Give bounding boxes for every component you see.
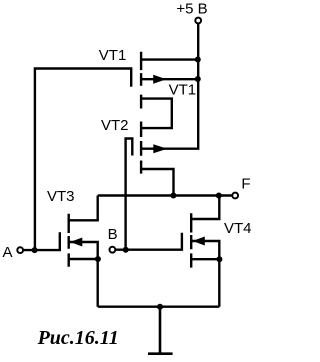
junction dot VT4 source (216, 256, 222, 262)
junction dot rail/VT1 bulk (195, 76, 201, 82)
svg-text:A: A (3, 244, 13, 261)
arrowhead VT3 bulk (points left) (70, 238, 82, 247)
svg-text:Рис.16.11: Рис.16.11 (37, 327, 119, 349)
wire: VT3 source down to ground rail (69, 259, 98, 307)
wire: VT1 drain stub to rail (141, 58, 198, 60)
terminal +5V (195, 18, 201, 24)
wire: input B to VT4 gate, gate bar (116, 233, 182, 251)
wire: VT3 drain up to output line (69, 196, 98, 221)
wire: VT2 source down to output node F (141, 169, 173, 196)
svg-text:VT1: VT1 (169, 81, 197, 98)
wire: VT4 source down to ground rail (191, 259, 219, 307)
junction dot input B branch (123, 247, 129, 253)
wire: VT3 bulk arrow line down to source (69, 242, 98, 259)
transistor VT3 channel dashes (67, 214, 69, 267)
junction dot output line/VT4 drain (216, 193, 222, 199)
wire: VT1 bulk arrow line to rail (141, 78, 198, 80)
wire: input A to VT3 gate, gate bar (24, 232, 60, 251)
wire: VT4 bulk arrow line down to source (191, 241, 219, 259)
wire: input A node up left side to VT1 gate, gate bar (35, 69, 131, 251)
arrowhead VT1 bulk (points right) (153, 75, 166, 84)
transistor VT1 channel dashes (140, 52, 142, 109)
arrowhead VT4 bulk (points left) (193, 237, 205, 246)
junction dot VT3 source (95, 256, 101, 262)
svg-text:VT2: VT2 (101, 117, 129, 134)
wire: bottom ground rail (98, 306, 220, 308)
transistor VT2 channel dashes (140, 122, 142, 174)
wire: VT4 drain up to output line (191, 196, 219, 220)
junction dot ground rail (157, 304, 163, 310)
junction dot VT2 source/output line (170, 193, 176, 199)
junction dot input A branch (32, 247, 38, 253)
svg-text:VT4: VT4 (224, 220, 252, 237)
svg-text:F: F (241, 175, 250, 192)
svg-text:B: B (108, 226, 118, 243)
wire: +5V rail down to VT2 bulk corner (141, 24, 198, 149)
junction dot rail/VT1 drain (195, 57, 201, 63)
svg-text:+5 В: +5 В (176, 0, 207, 17)
arrowhead VT2 bulk (points right) (153, 144, 167, 153)
terminal A (17, 247, 23, 253)
transistor VT4 channel dashes (190, 213, 192, 267)
wire: output line to F terminal (98, 194, 232, 196)
ground (148, 307, 173, 354)
terminal B (110, 247, 116, 253)
wire: B node up to VT2 gate, gate bar (126, 139, 133, 250)
svg-text:VT3: VT3 (47, 188, 75, 205)
svg-text:VT1: VT1 (99, 47, 127, 64)
wire: VT1 source loop to VT2 drain (141, 99, 172, 129)
terminal F (232, 193, 238, 199)
